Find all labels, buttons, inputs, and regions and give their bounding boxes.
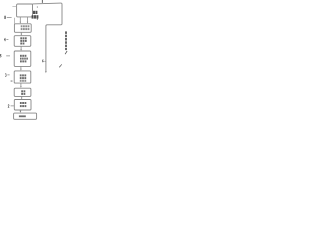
box M7 bottom wide box xyxy=(14,113,37,119)
text M2 (faint) xyxy=(21,25,23,27)
wire connector U1-M2 right xyxy=(27,17,29,22)
wire connector M3-M4 xyxy=(20,46,22,50)
wire connector M4-M5 xyxy=(20,66,22,69)
box M4 xyxy=(14,51,31,66)
wire left stub into U1 xyxy=(12,6,16,8)
label 6 near bus xyxy=(41,60,44,63)
box M2 xyxy=(14,24,31,33)
wire leader diagonal arrow xyxy=(59,64,61,67)
text M6a xyxy=(21,90,23,92)
wire connector M2-M3 xyxy=(20,32,22,34)
label text block right of U1 xyxy=(36,6,39,7)
text M3 xyxy=(20,37,22,39)
label 8 with leader xyxy=(4,16,7,19)
label 3 xyxy=(4,74,7,77)
box M5 xyxy=(14,71,31,83)
text M7 xyxy=(19,115,26,117)
box M6a xyxy=(14,88,31,96)
wire connector U1-M2 left xyxy=(19,17,21,22)
wire connector M5-M6a xyxy=(20,83,22,87)
label 2 xyxy=(8,105,9,108)
text M5 xyxy=(20,74,22,76)
arrowhead at bus end xyxy=(45,71,47,73)
wire feedback loop top and right xyxy=(33,3,63,71)
label 4 xyxy=(4,38,5,41)
box M6b xyxy=(14,100,31,111)
label vertical text column right xyxy=(65,31,67,34)
text M6b xyxy=(20,102,22,104)
wire connector M6a-M6b xyxy=(21,96,23,98)
box U1 top box xyxy=(17,4,33,17)
label 1 tick above top line xyxy=(41,0,44,3)
wire connector M6b-M7 xyxy=(19,110,21,111)
label 5 xyxy=(0,54,2,57)
box M3 xyxy=(14,36,31,47)
text M4 xyxy=(20,55,22,57)
